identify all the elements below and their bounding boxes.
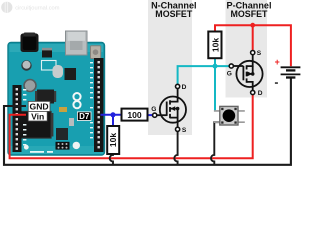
left header [13,85,22,152]
Q1 pin drain [176,84,180,88]
Q2 pin source [251,51,255,55]
svg-text:G: G [227,70,232,77]
mounting hole [73,142,80,149]
resistor 10k pull-up [208,32,221,59]
Q2 bulk arrow [248,72,253,77]
junction red node [250,23,255,28]
icsp header [56,142,70,150]
svg-text:circuitjournal.com: circuitjournal.com [15,5,60,11]
arduino infinity logo [73,93,80,108]
svg-text:S: S [257,50,262,57]
svg-text:10k: 10k [108,133,118,148]
label GND [28,101,50,111]
wire teal N-drain to P-gate [178,66,230,84]
wire blue branch down to 10k pulldown [112,115,114,126]
Q1 bulk arrow [170,106,175,111]
crystal [53,65,64,78]
svg-text:D: D [258,90,263,97]
pushbutton S1 [214,106,245,125]
voltage regulator [42,50,52,58]
svg-text:S: S [182,127,187,134]
right header [94,58,104,152]
ic chip small [37,90,54,104]
power jack [21,34,39,53]
battery BT1 [281,67,301,77]
transistor Q1 N-channel MOSFET [157,89,186,128]
Q2 pin drain [251,90,255,94]
capacitor C2 [24,80,36,92]
Q1 pin gate [153,113,157,117]
svg-text:D7: D7 [79,112,90,121]
wire red top: 10k to battery plus, S branch [215,25,291,66]
usb connector [66,31,88,55]
N-channel panel [148,0,192,135]
transistor Q2 P-channel MOSFET [233,55,262,91]
wire black 10k pulldown to ground with hop [110,154,113,165]
watermark logo circuitjournal [1,2,12,13]
Q2 pin gate [229,64,233,68]
Q1 pin source [176,127,180,131]
wire black button to ground with hop [211,122,220,165]
wire blue 100 resistor to N gate [148,114,153,116]
svg-text:100: 100 [127,110,142,120]
svg-text:GND: GND [30,102,49,112]
svg-text:10k: 10k [210,38,220,53]
battery minus label [275,82,278,84]
reset button [91,46,101,59]
resistor 100 ohm [122,109,148,121]
P-channel panel [226,0,268,98]
wire blue D7 to 100 resistor [101,114,122,116]
capacitor C1 [21,60,31,70]
small passives [56,128,68,140]
resistor 10k pulldown [107,126,119,154]
pin silkscreen text hints [23,62,93,153]
svg-text:Vin: Vin [31,111,44,121]
mcu ATmega DIP chip [20,112,51,139]
board pcb [8,43,105,156]
svg-text:MOSFET: MOSFET [231,9,269,19]
wire red Vin net: left side, bottom, up to P-MOSFET drain [10,95,253,158]
wire teal 10k pull-up stub [214,58,216,66]
svg-text:G: G [151,106,156,113]
silkscreen outline [42,61,57,71]
label Vin [28,111,47,121]
junction teal node [213,64,218,69]
wire black GND net: left side and bottom [4,78,291,165]
wire teal down to button [214,66,216,111]
junction blue node D7 [111,112,116,117]
svg-text:MOSFET: MOSFET [155,9,193,19]
wire red branch to P-MOSFET source [252,25,254,50]
usb interface chip [65,68,77,80]
label D7 [77,112,91,121]
mounting hole [24,145,29,150]
wire black N-source to ground with hop [174,132,177,165]
svg-text:D: D [182,84,187,91]
Arduino board [8,31,105,155]
svg-text:+: + [275,57,280,67]
